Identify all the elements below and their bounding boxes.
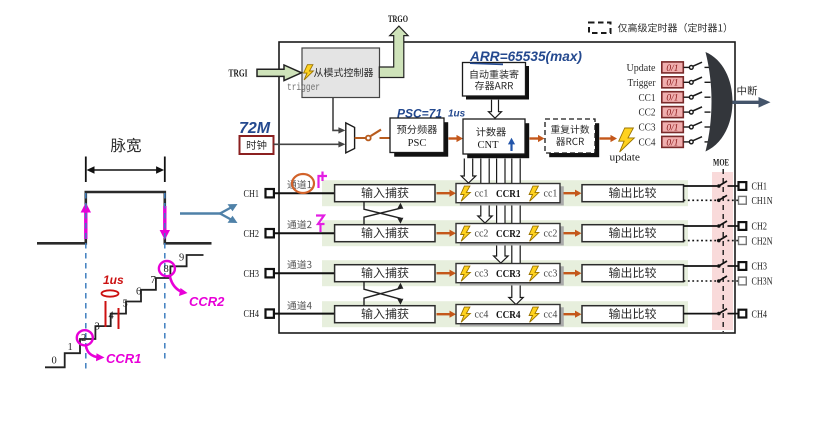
- crossing arrows input capture 1-2: [364, 202, 401, 222]
- svg-text:CH1: CH1: [752, 182, 768, 193]
- green channel bands: [322, 180, 688, 206]
- bolt slave-mode: [304, 65, 314, 80]
- svg-text:0: 0: [52, 356, 57, 367]
- legend label advanced timer only: [618, 23, 726, 33]
- output pad CH4: [739, 310, 747, 318]
- bolt cc4 right: [529, 307, 539, 322]
- wire slave box to mux: [333, 98, 340, 131]
- box input capture 2: [335, 225, 435, 242]
- switch mux to PSC: [355, 137, 366, 139]
- annotation magenta mark channel2: [316, 216, 325, 233]
- svg-text:CC3: CC3: [639, 123, 656, 134]
- magenta rising edge arrow: [84, 210, 87, 239]
- box output compare 2: [582, 225, 684, 242]
- svg-text:0/1: 0/1: [666, 64, 678, 74]
- label output compare 4: [609, 308, 656, 319]
- svg-text:CCR1: CCR1: [496, 188, 521, 200]
- pulse width measure arrows: [85, 157, 87, 183]
- label output compare 2: [609, 227, 656, 238]
- label channel 3: [287, 260, 311, 269]
- label input capture 1: [362, 187, 409, 198]
- svg-text:1us: 1us: [103, 273, 124, 287]
- wire CH4 pad to input capture: [274, 313, 335, 315]
- outer timer box: [279, 42, 735, 333]
- svg-text:CCR3: CCR3: [496, 268, 521, 280]
- arrow CCR2 to output compare: [564, 232, 577, 234]
- box counter CNT: [467, 123, 529, 158]
- TRGI input arrow: [257, 65, 302, 81]
- box input capture 3: [335, 265, 435, 282]
- wire clock to mux: [274, 143, 341, 145]
- box capture compare CCR1: [460, 186, 564, 205]
- label channel 2: [287, 220, 311, 229]
- svg-text:cc3: cc3: [544, 268, 558, 279]
- wire output compare 1 to switch CH1: [684, 185, 718, 187]
- box capture compare CCR4: [460, 307, 564, 326]
- counter staircase: [45, 255, 204, 367]
- svg-text:6: 6: [136, 287, 141, 298]
- output pad CH1N: [739, 196, 747, 204]
- label channel 1: [287, 180, 311, 189]
- svg-text:3: 3: [95, 322, 100, 333]
- dotted wire output compare 1 to CH1N: [684, 199, 718, 201]
- svg-text:CCR2: CCR2: [496, 228, 521, 240]
- svg-text:0/1: 0/1: [666, 123, 678, 133]
- svg-text:9: 9: [179, 253, 184, 264]
- svg-text:CC2: CC2: [639, 108, 656, 119]
- ARR handwriting tail stroke over box corner: [470, 63, 503, 64]
- switch CH4: [717, 312, 721, 316]
- svg-text:CCR1: CCR1: [106, 351, 141, 366]
- svg-text:TRGO: TRGO: [388, 15, 408, 25]
- switch CH3N: [717, 279, 721, 283]
- bolt cc3 right: [529, 266, 539, 281]
- svg-text:CH2: CH2: [244, 229, 260, 240]
- label prescaler: [397, 125, 437, 135]
- svg-text:0/1: 0/1: [666, 79, 678, 89]
- bolt cc3 left: [461, 266, 471, 281]
- blue dashed line right edge: [164, 193, 166, 363]
- box input capture 4: [335, 306, 435, 323]
- mux trapezoid: [346, 123, 355, 153]
- pink MOE strip: [712, 172, 733, 330]
- svg-text:CH3: CH3: [244, 269, 260, 280]
- bolt cc1 right: [529, 186, 539, 201]
- arrow RCR to update bolt: [600, 137, 612, 139]
- svg-text:cc1: cc1: [544, 188, 558, 199]
- arrow input capture 3 to CCR3: [437, 272, 451, 274]
- svg-text:72M: 72M: [239, 120, 271, 137]
- bolt cc2 left: [461, 226, 471, 241]
- switch CH2N: [717, 239, 721, 243]
- svg-text:Update: Update: [627, 63, 656, 74]
- svg-text:CNT: CNT: [478, 140, 500, 151]
- svg-text:CH3N: CH3N: [752, 277, 773, 288]
- wire output compare 2 to switch CH2: [684, 225, 718, 227]
- crossing arrows input capture 3-4: [364, 282, 401, 303]
- label input capture 4: [362, 308, 409, 319]
- legend dashed box: [589, 23, 611, 34]
- annotation magenta mark channel1: [319, 172, 328, 189]
- box clock: [240, 136, 274, 154]
- arrow PSC to CNT: [449, 137, 458, 139]
- arrow input capture 4 to CCR4: [437, 313, 451, 315]
- box capture compare CCR2: [460, 226, 564, 245]
- svg-text:TRGI: TRGI: [229, 68, 248, 79]
- svg-text:PSC: PSC: [408, 138, 427, 149]
- label output compare 3: [609, 267, 656, 278]
- svg-text:cc2: cc2: [544, 228, 558, 239]
- label output compare 1: [609, 187, 656, 198]
- annotation orange circle channel1: [292, 174, 314, 193]
- hollow compare columns CNT to CCR1-4: [461, 159, 476, 184]
- box auto-reload register ARR: [466, 66, 529, 100]
- svg-text:cc2: cc2: [475, 228, 489, 239]
- switch CH2: [717, 224, 721, 228]
- box slave mode controller: [302, 48, 380, 98]
- svg-text:cc4: cc4: [475, 309, 489, 320]
- output pad CH3N: [739, 277, 747, 285]
- svg-text:0/1: 0/1: [666, 109, 678, 119]
- label pulse width: [111, 138, 141, 153]
- blue dashed line left edge: [85, 193, 87, 369]
- svg-text:trigger: trigger: [287, 82, 320, 94]
- svg-text:ARR=65535(max): ARR=65535(max): [469, 48, 582, 64]
- box prescaler PSC: [394, 122, 448, 157]
- label input capture 2: [362, 227, 409, 238]
- hollow arrow ARR to CNT: [489, 100, 502, 118]
- magenta circle CCR1 marker: [77, 330, 93, 345]
- svg-text:7: 7: [151, 275, 156, 286]
- output pad CH1: [739, 182, 747, 190]
- svg-text:CC4: CC4: [639, 138, 657, 149]
- magenta arrow to CCR2 label: [170, 277, 182, 292]
- wire CH1 pad to input capture: [274, 192, 335, 194]
- label slave mode controller: [314, 68, 373, 77]
- label repetition counter: [551, 125, 589, 134]
- arrow CCR4 to output compare: [564, 313, 577, 315]
- TRGO output arrow with elbow: [379, 26, 408, 77]
- dotted wire output compare 2 to CH2N: [684, 240, 718, 242]
- svg-text:CCR4: CCR4: [496, 309, 521, 321]
- wire CH2 pad to input capture: [274, 232, 335, 234]
- bolt cc2 right: [529, 226, 539, 241]
- box output compare 4: [582, 306, 684, 323]
- svg-text:CH1N: CH1N: [752, 196, 773, 207]
- svg-text:Trigger: Trigger: [628, 78, 656, 89]
- label input capture 3: [362, 267, 409, 278]
- svg-text:CH2: CH2: [752, 222, 768, 233]
- pulse waveform: [37, 192, 212, 243]
- svg-text:1us: 1us: [448, 109, 466, 120]
- svg-text:4: 4: [109, 311, 115, 322]
- svg-text:0/1: 0/1: [666, 94, 678, 104]
- fork arrow to CH1 CH2: [180, 212, 222, 214]
- svg-text:CCR2: CCR2: [189, 294, 225, 309]
- arrow CCR3 to output compare: [564, 272, 577, 274]
- output pad CH3: [739, 262, 747, 270]
- svg-text:CH1: CH1: [244, 189, 260, 200]
- svg-text:8: 8: [164, 264, 169, 275]
- box input capture 1: [335, 185, 435, 202]
- bolt cc1 left: [461, 186, 471, 201]
- bolt cc4 left: [461, 307, 471, 322]
- output pad CH2N: [739, 237, 747, 245]
- box output compare 1: [582, 185, 684, 202]
- svg-text:CC1: CC1: [639, 93, 656, 104]
- MOE dashed line: [722, 169, 724, 332]
- svg-text:CH3: CH3: [752, 262, 768, 273]
- svg-text:update: update: [610, 152, 641, 164]
- label channel 4: [287, 301, 311, 310]
- box repetition counter RCR (dashed): [549, 123, 599, 157]
- box output compare 3: [582, 265, 684, 282]
- wire output compare 3 to switch CH3: [684, 265, 718, 267]
- arrow CNT to RCR: [530, 137, 540, 139]
- output pad CH2: [739, 222, 747, 230]
- box capture compare CCR3: [460, 266, 564, 285]
- wire output compare 4 to switch CH4: [684, 313, 718, 315]
- svg-text:MOE: MOE: [713, 159, 729, 169]
- svg-text:1: 1: [68, 342, 73, 353]
- svg-text:CH4: CH4: [752, 309, 768, 320]
- svg-text:CH2N: CH2N: [752, 236, 773, 247]
- svg-text:cc3: cc3: [475, 268, 489, 279]
- blue up arrow in CNT: [510, 142, 512, 151]
- interrupt arrow: [733, 101, 761, 104]
- magenta arrow to CCR1 label: [86, 346, 99, 358]
- svg-text:cc1: cc1: [475, 188, 489, 199]
- magenta circle CCR2 marker: [159, 261, 175, 276]
- label clock: [247, 140, 266, 150]
- OR gate crescent: [706, 52, 733, 152]
- dotted wire output compare 3 to CH3N: [684, 280, 718, 282]
- arrow CCR1 to output compare: [564, 192, 577, 194]
- switch CH1N: [717, 199, 721, 203]
- svg-text:2: 2: [81, 333, 86, 344]
- label counter: [476, 127, 506, 137]
- svg-text:cc4: cc4: [544, 309, 558, 320]
- wire CH3 pad to input capture: [274, 272, 335, 274]
- arrow input capture 1 to CCR1: [437, 192, 451, 194]
- svg-text:CH4: CH4: [244, 309, 260, 320]
- svg-text:0/1: 0/1: [666, 138, 678, 148]
- switch CH3: [717, 264, 721, 268]
- bolt update event: [619, 128, 635, 152]
- label interrupt: [738, 86, 758, 96]
- arrow input capture 2 to CCR2: [437, 232, 451, 234]
- label auto-reload register: [471, 70, 519, 79]
- switch CH1: [717, 184, 721, 188]
- svg-text:5: 5: [123, 299, 128, 310]
- magenta falling edge arrow: [163, 206, 166, 232]
